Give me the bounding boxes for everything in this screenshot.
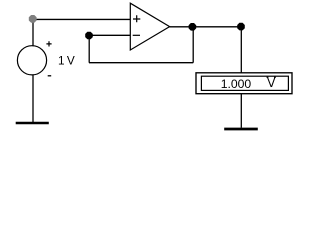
wire: feedback right vertical up to output: [192, 27, 194, 63]
ground (right): [224, 128, 258, 131]
wire: node A down to source top: [32, 19, 34, 46]
voltmeter M1 inner display box: [201, 76, 288, 90]
voltage source V1 minus sign: [48, 75, 52, 77]
wire: op-amp output: [170, 26, 242, 28]
ground (left): [16, 122, 49, 125]
wire: node D down to voltmeter: [240, 27, 242, 73]
node B (junction dot at inverting input): [85, 32, 93, 40]
node D (meter branch dot): [237, 23, 245, 31]
svg-text:V: V: [67, 53, 75, 67]
voltmeter M1 outer box: [196, 73, 292, 94]
voltage source V1 circle: [17, 46, 46, 75]
svg-text:1: 1: [58, 53, 65, 67]
wire: voltmeter bottom to right ground: [240, 94, 242, 128]
wire: inverting input from node B: [89, 34, 130, 36]
node A (gray input node): [29, 15, 37, 23]
voltmeter M1 unit V glyph: [267, 77, 276, 87]
op-amp U1 plus input glyph: [133, 15, 140, 22]
voltage source V1 plus sign: [46, 41, 51, 46]
wire: feedback bottom horizontal: [89, 62, 193, 64]
wire top: node A to op-amp + input: [33, 18, 131, 20]
wire: feedback left vertical: [88, 35, 90, 62]
wire: source bottom to left ground: [32, 75, 34, 122]
node C (output junction dot): [189, 23, 197, 31]
op-amp U1 triangle: [130, 3, 169, 50]
svg-text:1.000: 1.000: [221, 77, 252, 91]
op-amp U1 minus input glyph: [133, 34, 140, 36]
